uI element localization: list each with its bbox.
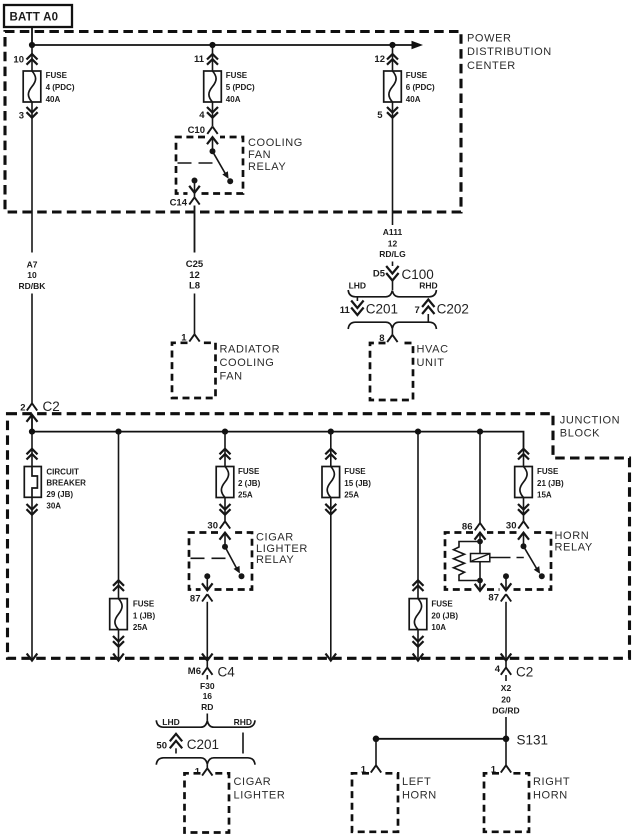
svg-text:BREAKER: BREAKER (46, 479, 86, 488)
svg-text:RIGHT: RIGHT (533, 776, 570, 788)
fuse F20 JB (409, 599, 458, 633)
relay output arrow (189, 181, 200, 194)
fuse F2 JB (216, 467, 260, 500)
right horn pin 1 connector (491, 764, 511, 775)
wire bus corner to fuse 21 (523, 448, 525, 467)
horn relay switch blade (524, 546, 545, 579)
svg-text:RELAY: RELAY (555, 542, 593, 554)
svg-text:C25: C25 (186, 259, 204, 270)
svg-text:C10: C10 (188, 125, 205, 136)
horn relay pin 86 connector (462, 522, 485, 533)
wire from BATT A0 (31, 27, 33, 45)
exit arrow horn column (501, 654, 512, 661)
svg-text:RD: RD (201, 702, 213, 712)
wire C25 upper segment (194, 206, 196, 253)
svg-text:30A: 30A (46, 501, 61, 510)
connector C2 pin 4 lower (495, 661, 534, 680)
svg-text:2: 2 (20, 403, 25, 414)
exit arrow cigar column (202, 654, 213, 661)
svg-text:C201: C201 (366, 302, 398, 317)
wire bus to circuit breaker (31, 432, 33, 467)
cigar lighter label (234, 776, 286, 802)
cigar lighter relay box (189, 533, 252, 590)
wire to fuse 5 (212, 45, 214, 71)
svg-text:LIGHTER: LIGHTER (234, 790, 286, 802)
wire C25 lower segment (194, 294, 196, 335)
wire bus to horn relay coil pin 86 (479, 432, 481, 523)
svg-text:C202: C202 (437, 302, 469, 317)
svg-text:86: 86 (462, 522, 473, 533)
node fuse 15 tap (328, 429, 334, 435)
cigar relay output arrow pin 87 (190, 576, 213, 604)
svg-text:40A: 40A (406, 95, 421, 104)
svg-text:RD/BK: RD/BK (19, 281, 47, 291)
horn relay 30 entry arrow (518, 533, 529, 540)
svg-text:25A: 25A (238, 491, 253, 500)
svg-text:HORN: HORN (402, 790, 437, 802)
horn relay common wire (523, 533, 525, 547)
svg-text:F30: F30 (200, 681, 215, 691)
horn relay coil core box (471, 554, 490, 562)
wire to right horn (505, 739, 507, 766)
relay switch blade (213, 151, 234, 184)
node fuse 1 tap (115, 429, 121, 435)
fuse F4 PDC (23, 71, 75, 104)
junction block bus (32, 415, 524, 449)
junction block box (8, 414, 630, 659)
HVAC pin 8 connector (379, 329, 397, 345)
svg-text:X2: X2 (501, 683, 512, 693)
wire to fuse 6 (392, 45, 394, 71)
relay common wire (212, 137, 214, 151)
wire A111 upper segment (392, 212, 394, 225)
relay 30 entry arrow (207, 137, 218, 144)
svg-text:FUSE: FUSE (226, 71, 248, 80)
fuse F1 JB (110, 599, 156, 633)
wire bus to fuse 20 (417, 432, 419, 599)
svg-text:87: 87 (488, 593, 499, 604)
svg-text:RELAY: RELAY (256, 554, 294, 566)
horn relay actuator line (490, 557, 524, 559)
horn relay label (555, 530, 593, 554)
wire fuse 6 to PDC exit (392, 102, 394, 212)
svg-text:C201: C201 (187, 737, 219, 752)
svg-text:FUSE: FUSE (537, 467, 559, 476)
connector C100 pin D5 (373, 262, 434, 291)
svg-text:10A: 10A (431, 623, 446, 632)
cigar relay pin 30 connector (207, 521, 230, 532)
wire C14 down (194, 206, 196, 253)
horn relay coil output arrow (475, 581, 486, 591)
wire fuse 1 to exit (118, 630, 120, 660)
svg-text:4: 4 (495, 664, 501, 675)
svg-text:C4: C4 (218, 665, 236, 680)
svg-text:S131: S131 (517, 733, 549, 748)
horn relay output arrow pin 87 (488, 576, 511, 603)
svg-text:FUSE: FUSE (238, 467, 260, 476)
horn relay output node 87 (503, 573, 509, 579)
wire A7 lower segment (31, 294, 33, 404)
RHD branch stub (242, 733, 244, 754)
bus wire B+ (32, 41, 423, 49)
svg-text:6 (PDC): 6 (PDC) (406, 83, 435, 92)
cigar relay switch blade (225, 547, 245, 580)
relay actuator dashed line (178, 162, 214, 164)
right horn box (484, 773, 529, 832)
exit arrow fuse 15 column (326, 654, 337, 661)
svg-text:COOLING: COOLING (248, 137, 303, 149)
wire bus to fuse 2 (224, 432, 226, 467)
svg-text:DG/RD: DG/RD (492, 706, 519, 716)
wire A7 upper segment (31, 212, 33, 253)
svg-text:LHD: LHD (349, 281, 366, 291)
horn relay coil wire (479, 533, 481, 581)
connector C10 (188, 125, 218, 136)
svg-text:CENTER: CENTER (467, 60, 516, 72)
wire to fuse 4 (31, 45, 33, 71)
wire fuse 2 to cigar relay (224, 498, 226, 522)
svg-text:LHD: LHD (162, 717, 179, 727)
svg-text:11: 11 (340, 305, 351, 316)
HVAC unit box (370, 343, 413, 400)
node fuse 20 tap (415, 429, 421, 435)
svg-text:50: 50 (156, 741, 167, 752)
cigar lighter pin 1 connector (195, 764, 213, 777)
svg-text:87: 87 (190, 593, 201, 604)
svg-text:4 (PDC): 4 (PDC) (46, 83, 75, 92)
wire fuse 4 to PDC exit (31, 102, 33, 212)
svg-text:POWER: POWER (467, 33, 512, 45)
fuse F21 JB (515, 467, 564, 500)
lower brace (348, 322, 436, 329)
svg-text:7: 7 (415, 305, 420, 316)
svg-text:FUSE: FUSE (406, 71, 428, 80)
svg-text:HORN: HORN (555, 530, 590, 542)
svg-text:20: 20 (501, 695, 511, 705)
node circuit breaker tap (29, 429, 35, 435)
svg-text:FUSE: FUSE (344, 467, 366, 476)
svg-text:FAN: FAN (220, 371, 243, 383)
exit arrow left column (27, 654, 38, 661)
upper brace (348, 290, 436, 297)
svg-text:D5: D5 (373, 269, 386, 280)
circuit breaker 29 JB (24, 467, 86, 511)
svg-text:25A: 25A (133, 623, 148, 632)
svg-text:15 (JB): 15 (JB) (344, 479, 371, 488)
relay output node (192, 178, 198, 184)
cigar relay output node (204, 573, 210, 579)
svg-text:5: 5 (377, 110, 383, 121)
svg-text:A111: A111 (383, 227, 403, 237)
svg-text:CIRCUIT: CIRCUIT (46, 467, 79, 476)
horn relay box (445, 533, 551, 590)
svg-text:30: 30 (506, 521, 517, 532)
wire label X2 20 DG/RD (492, 675, 519, 716)
svg-text:2 (JB): 2 (JB) (238, 479, 261, 488)
horn relay 86 entry arrow (475, 533, 486, 540)
svg-text:BLOCK: BLOCK (560, 427, 600, 439)
svg-text:FAN: FAN (248, 149, 271, 161)
wire fuse 21 to horn relay (523, 498, 525, 522)
svg-text:12: 12 (189, 270, 200, 281)
svg-text:HORN: HORN (533, 790, 568, 802)
node at fuse 6 tap (389, 42, 395, 48)
svg-text:11: 11 (194, 54, 205, 65)
svg-text:RD/LG: RD/LG (379, 249, 406, 259)
svg-text:5 (PDC): 5 (PDC) (226, 83, 255, 92)
svg-text:4: 4 (199, 110, 205, 121)
wire fuse 20 to exit (417, 630, 419, 660)
wire fuse 5 to relay (212, 102, 214, 126)
exit arrow fuse 1 column (113, 654, 124, 661)
svg-text:FUSE: FUSE (133, 599, 155, 608)
cooling fan relay label (248, 137, 303, 173)
svg-text:3: 3 (19, 111, 24, 122)
connector C201 pin 50 (156, 734, 219, 754)
svg-text:C14: C14 (170, 197, 188, 208)
svg-text:DISTRIBUTION: DISTRIBUTION (467, 46, 552, 58)
fuse F5 PDC (204, 71, 255, 104)
svg-text:30: 30 (207, 521, 218, 532)
connector C4 pin M6 (188, 661, 235, 680)
svg-text:C2: C2 (516, 665, 533, 680)
svg-text:15A: 15A (537, 491, 552, 500)
radiator cooling fan label (220, 343, 281, 382)
svg-text:HVAC: HVAC (417, 343, 449, 355)
wire fuse 15 to exit (330, 498, 332, 661)
svg-text:CIGAR: CIGAR (256, 531, 294, 543)
wire to left horn (375, 739, 377, 766)
cigar lighter relay label (256, 531, 308, 566)
svg-text:M6: M6 (188, 666, 201, 677)
cooling fan relay box (176, 137, 243, 194)
svg-text:RHD: RHD (419, 281, 437, 291)
connector C202 pin 7 (415, 300, 469, 323)
svg-text:LEFT: LEFT (402, 776, 431, 788)
left horn pin 1 connector (361, 764, 381, 775)
cigar relay actuator dashed line (191, 557, 228, 559)
svg-text:FUSE: FUSE (431, 599, 453, 608)
wire bus to fuse 1 (118, 432, 120, 599)
lower brace lower section (156, 758, 255, 765)
wire label A7 10 RD/BK (19, 260, 47, 291)
left horn label (402, 776, 437, 802)
node at fuse 5 tap (209, 42, 215, 48)
splice S131 (373, 733, 548, 748)
radiator cooling fan box (172, 343, 216, 398)
svg-text:JUNCTION: JUNCTION (560, 415, 620, 427)
connector C14 (170, 193, 200, 208)
cigar lighter box (185, 773, 230, 832)
svg-text:1 (JB): 1 (JB) (133, 612, 156, 621)
node at fuse 4 tap (29, 42, 35, 48)
svg-text:BATT A0: BATT A0 (10, 12, 59, 24)
svg-text:FUSE: FUSE (46, 71, 68, 80)
node fuse 2 tap (222, 429, 228, 435)
svg-text:A7: A7 (27, 260, 38, 270)
wire circuit breaker to exit (31, 497, 33, 660)
svg-text:RADIATOR: RADIATOR (220, 343, 281, 355)
wire label F30 16 RD (200, 675, 215, 712)
svg-text:21 (JB): 21 (JB) (537, 479, 564, 488)
svg-text:25A: 25A (344, 491, 359, 500)
power distribution center box (5, 32, 461, 213)
junction block label (560, 415, 620, 440)
svg-text:C2: C2 (43, 399, 60, 414)
wire to brace (206, 714, 208, 721)
svg-text:RELAY: RELAY (248, 161, 286, 173)
power distribution center label (467, 33, 552, 72)
svg-text:40A: 40A (46, 95, 61, 104)
svg-text:40A: 40A (226, 95, 241, 104)
HVAC unit label (417, 343, 449, 369)
svg-text:L8: L8 (189, 281, 200, 292)
cigar relay 30 entry arrow (220, 533, 231, 540)
wire cigar 87 to exit (206, 602, 208, 660)
connector C201 pin 11 (340, 298, 398, 317)
battery feed box BATT A0 (4, 5, 72, 27)
fuse F6 PDC (384, 71, 435, 104)
exit arrow fuse 20 column (413, 654, 424, 661)
svg-text:12: 12 (388, 238, 398, 248)
wire bus to fuse 15 (330, 432, 332, 467)
svg-text:20 (JB): 20 (JB) (431, 612, 458, 621)
wire label A111 12 RD/LG (379, 227, 406, 259)
wire label C25 12 L8 (186, 259, 204, 292)
horn relay coil winding (454, 542, 481, 581)
svg-text:UNIT: UNIT (417, 357, 445, 369)
horn relay pin 30 connector (506, 521, 529, 532)
svg-text:16: 16 (203, 691, 213, 701)
right horn label (533, 776, 570, 802)
connector C2 pin 2 (20, 399, 60, 414)
svg-text:10: 10 (27, 270, 37, 280)
svg-text:CIGAR: CIGAR (234, 776, 272, 788)
left horn box (352, 773, 398, 832)
upper brace lower section (156, 720, 255, 727)
fuse F15 JB (322, 467, 371, 500)
wire to splice S131 (505, 717, 507, 739)
node horn relay coil tap (477, 429, 483, 435)
svg-text:10: 10 (13, 55, 24, 66)
svg-text:COOLING: COOLING (220, 357, 275, 369)
cigar relay common wire (224, 533, 226, 547)
svg-text:RHD: RHD (234, 717, 252, 727)
C2 entry arrow into junction block (27, 415, 38, 422)
wire horn 87 to exit (505, 602, 507, 660)
radiator fan pin 1 connector (181, 332, 199, 343)
svg-text:12: 12 (374, 54, 385, 65)
svg-text:29 (JB): 29 (JB) (46, 490, 73, 499)
